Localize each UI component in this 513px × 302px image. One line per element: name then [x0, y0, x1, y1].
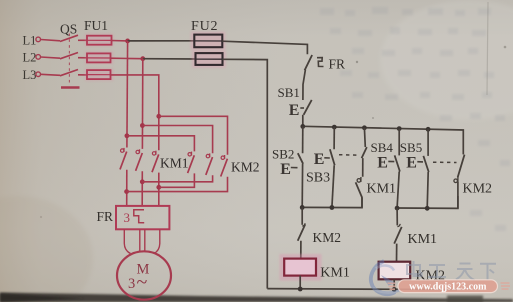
svg-text:E: E — [289, 102, 300, 119]
node bus5 — [426, 127, 431, 132]
contact KM2 pole2 — [142, 153, 212, 181]
wire L2 to QS — [41, 57, 60, 58]
button SB3 — [306, 127, 335, 207]
coil KM2 — [379, 262, 445, 284]
mid bus right — [397, 196, 458, 208]
contact KM2 aux — [454, 155, 492, 209]
contact KM1 pole2 — [136, 149, 143, 206]
wire KM2 feed1 — [127, 136, 194, 152]
top control bus — [303, 126, 464, 154]
terminal L2 — [23, 51, 41, 65]
svg-text:SB5: SB5 — [400, 140, 422, 155]
contact KM1 aux — [356, 177, 396, 208]
svg-text:L2: L2 — [23, 51, 37, 65]
svg-text:SB4: SB4 — [371, 140, 394, 155]
svg-text:L1: L1 — [23, 33, 37, 47]
svg-text:www.dqjs123.com: www.dqjs123.com — [409, 281, 487, 292]
svg-text:KM1: KM1 — [160, 155, 189, 170]
contact KM2 pole3 — [127, 155, 228, 192]
svg-text:E: E — [406, 155, 417, 172]
node A2 — [125, 133, 130, 138]
node B3 — [140, 179, 145, 184]
watermark characters dian gong tian xia — [407, 261, 496, 280]
wire L1 to QS — [41, 40, 60, 41]
wire FU1 L3 down — [111, 75, 159, 150]
node B1 — [140, 56, 145, 61]
button SB4 — [371, 129, 400, 208]
node A1 — [125, 39, 130, 44]
wire KM1 coil to bottom bus — [299, 276, 301, 290]
switch QS — [60, 22, 80, 88]
wire FR to motor — [124, 229, 160, 253]
wire QS to FU1 — [78, 40, 87, 75]
node bus1 — [300, 124, 305, 129]
contact KM1 pole3 — [152, 151, 159, 206]
svg-text:SB1: SB1 — [278, 85, 300, 100]
wire FU1 to node A1 — [112, 40, 128, 42]
contact KM2 pole1 — [159, 152, 195, 188]
wire phase B down — [141, 59, 143, 149]
fuse FU1 — [84, 18, 114, 81]
bottom control bus — [267, 289, 457, 290]
watermark banner — [388, 280, 511, 293]
node C2 — [156, 114, 161, 119]
svg-text:SB3: SB3 — [306, 171, 330, 186]
button SB2 — [272, 126, 303, 207]
dashed link SB5 — [433, 161, 457, 163]
mid bus left — [302, 197, 362, 207]
node bottom2 — [392, 287, 397, 292]
wire KM2 feed2 — [142, 126, 212, 154]
terminal L3 — [23, 68, 41, 82]
svg-text:FU1: FU1 — [84, 18, 108, 33]
wire FU1 to node B1 — [111, 57, 143, 60]
node bus2 — [332, 125, 337, 130]
svg-text:KM1: KM1 — [320, 266, 350, 281]
svg-text:E: E — [377, 155, 388, 172]
fuse FU2 — [191, 19, 227, 68]
thermal contact FR — [305, 55, 345, 72]
svg-text:L3: L3 — [23, 68, 37, 82]
coil KM1 — [280, 254, 350, 281]
contact SB3 linked NO — [362, 128, 367, 177]
node mid4 — [425, 206, 430, 211]
wire phase A down — [126, 41, 129, 148]
wire FU2 L2 return line — [223, 59, 268, 288]
dashed link SB3 — [339, 154, 360, 157]
terminal L1 — [23, 33, 41, 47]
wire L3 to QS — [41, 74, 60, 75]
wire FU2 to FR contact — [222, 41, 307, 54]
wire KM2 feed3 — [159, 116, 228, 155]
svg-text:KM1: KM1 — [408, 232, 438, 247]
svg-text:E: E — [314, 151, 325, 168]
wire KM2 coil to bottom bus — [393, 279, 395, 289]
svg-text:3: 3 — [128, 276, 135, 292]
svg-text:E: E — [280, 161, 291, 178]
wire node B1 to FU2 — [143, 58, 196, 60]
node A3 — [124, 189, 129, 194]
relay FR heater box — [97, 206, 170, 229]
contact KM2 interlock NC — [298, 207, 341, 258]
node bus4 — [397, 126, 402, 131]
button SB1 — [278, 85, 312, 126]
node mid1 — [300, 205, 305, 210]
svg-text:SB2: SB2 — [272, 147, 294, 162]
svg-text:QS: QS — [60, 22, 77, 37]
node mid2 — [330, 205, 335, 210]
node bottom1 — [298, 287, 303, 292]
svg-text:FR: FR — [97, 209, 114, 224]
wire node A1 to FU2 — [128, 40, 195, 42]
svg-text:KM2: KM2 — [463, 181, 493, 196]
contact KM1 interlock NC — [394, 208, 437, 262]
node bus3 — [362, 125, 367, 130]
svg-text:~: ~ — [137, 272, 148, 294]
svg-text:KM1: KM1 — [367, 181, 397, 196]
motor M — [117, 251, 171, 299]
contact KM1 pole1 — [120, 148, 127, 206]
node C3 — [156, 185, 161, 190]
svg-text:FR: FR — [329, 57, 346, 72]
node mid3 — [395, 206, 400, 211]
svg-text:KM2: KM2 — [313, 230, 342, 245]
svg-text:KM2: KM2 — [231, 159, 260, 174]
watermark logo swirl — [371, 261, 401, 294]
button SB5 — [400, 129, 429, 208]
wire FR to SB1 — [303, 70, 306, 100]
node B2 — [140, 123, 145, 128]
svg-text:3: 3 — [124, 210, 131, 225]
